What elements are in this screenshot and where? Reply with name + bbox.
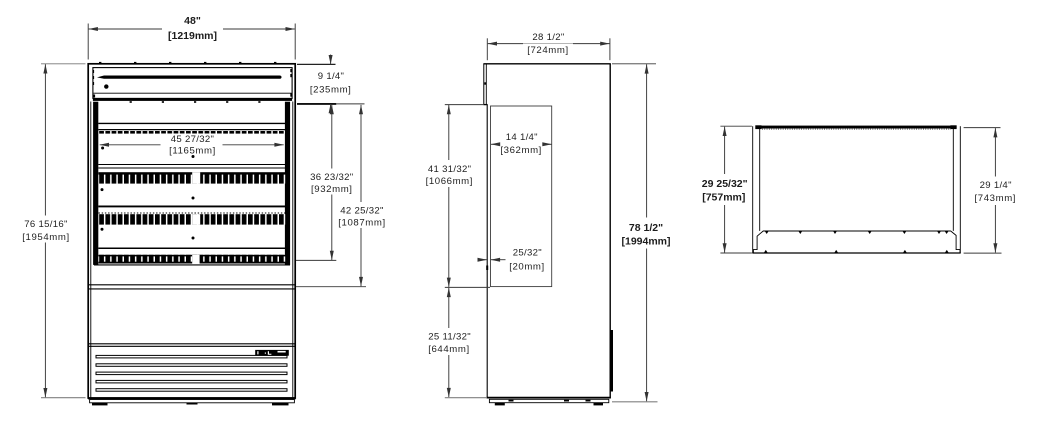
dim 42 ext bottom — [296, 286, 366, 288]
svg-text:14 1/4": 14 1/4" — [506, 132, 538, 143]
rear edge — [609, 64, 611, 398]
feet — [92, 403, 108, 406]
dim 29.79 ext bottom — [720, 252, 752, 254]
dim 25.34 text — [423, 328, 475, 355]
dim 29.25 text — [970, 177, 1021, 206]
side base plinth — [489, 399, 608, 402]
body front edge — [486, 105, 488, 398]
dim 42 text — [336, 202, 388, 229]
dim 76in ext bottom — [41, 397, 86, 399]
left wall post — [93, 102, 98, 265]
brand label — [255, 350, 289, 356]
canopy front dot — [484, 82, 486, 84]
canopy lamp dot — [104, 84, 108, 88]
canopy front outer line — [483, 64, 485, 105]
bumper lines — [89, 284, 296, 286]
dim 36 ext bottom — [296, 259, 336, 261]
dim 36 text — [307, 169, 357, 196]
canopy inner panel — [93, 68, 292, 99]
dim 0.79 leader — [491, 259, 506, 261]
base plinth — [90, 400, 295, 403]
dim 0.79 text — [509, 248, 545, 273]
dim 36 line — [331, 105, 333, 260]
shelf line above strip3 — [98, 247, 285, 249]
left inner wall — [759, 129, 761, 231]
top shelf line 1 — [98, 122, 285, 124]
svg-text:78 1/2": 78 1/2" — [629, 222, 663, 234]
dim 78.5 text — [619, 218, 674, 249]
svg-text:36 23/32": 36 23/32" — [310, 172, 353, 183]
svg-text:48": 48" — [184, 15, 201, 27]
dim 29.25 ext top — [964, 127, 1001, 129]
dim 9.25 ext bottom thick — [297, 103, 336, 105]
svg-text:[644mm]: [644mm] — [428, 344, 470, 355]
dim 48in line — [89, 28, 295, 30]
shelf strip 2 — [99, 214, 286, 224]
dim 29.79 ext top — [720, 125, 752, 127]
dim 42 line — [360, 105, 362, 286]
svg-text:[20mm]: [20mm] — [509, 262, 545, 273]
dim 9.25 ext top — [297, 63, 336, 65]
svg-text:29 1/4": 29 1/4" — [980, 180, 1012, 191]
svg-text:[362mm]: [362mm] — [500, 145, 542, 156]
dim 41 line — [448, 105, 450, 287]
dim 29.79 text — [700, 174, 750, 205]
right inner wall — [952, 129, 954, 231]
dim 29.25 ext bottom — [964, 252, 1002, 254]
dim 45 text — [161, 134, 223, 157]
dim 76in line — [44, 64, 46, 397]
canopy inner shelf line — [94, 92, 292, 94]
interior opening rect — [491, 106, 552, 287]
shelf dots row3 — [101, 228, 104, 231]
back panel right corner — [951, 231, 960, 253]
canopy bottom band — [93, 98, 292, 101]
svg-text:[1165mm]: [1165mm] — [169, 146, 216, 157]
bar corner block left — [755, 125, 761, 129]
top shelf line 2 — [98, 129, 285, 131]
svg-text:[743mm]: [743mm] — [975, 193, 1017, 204]
dim 78.5 line — [646, 64, 648, 401]
canopy step — [483, 104, 487, 106]
cabinet bottom thick line — [88, 397, 296, 399]
dim 9.25 text — [308, 69, 354, 96]
svg-text:42 25/32": 42 25/32" — [340, 205, 383, 216]
dim 78.5 ext top — [612, 63, 656, 65]
svg-text:25/32": 25/32" — [513, 248, 542, 259]
canopy underside ticks — [130, 101, 261, 103]
shelf dots row1 — [101, 147, 104, 150]
svg-text:[235mm]: [235mm] — [310, 84, 352, 95]
dim 14.25 text — [500, 132, 542, 156]
dim 48 text — [162, 15, 223, 42]
dim 9.25 outside arrows — [330, 55, 332, 65]
shelf line above strip1 — [98, 164, 285, 166]
side feet — [495, 403, 505, 406]
right outer wall — [959, 126, 961, 253]
dim 25.34 ext bottom — [445, 397, 486, 399]
svg-text:[1954mm]: [1954mm] — [22, 232, 69, 243]
shelf line above strip2 — [98, 205, 285, 207]
svg-text:[724mm]: [724mm] — [527, 45, 569, 56]
dim mid ext line — [445, 286, 490, 288]
left outer wall — [752, 126, 754, 253]
left wall inner line — [90, 102, 92, 398]
top edge screw ticks — [99, 62, 276, 63]
dim 48in extension lines — [87, 24, 89, 60]
svg-text:[1066mm]: [1066mm] — [426, 176, 473, 187]
canopy front inner line — [485, 64, 487, 105]
rear bumper strip — [611, 330, 614, 392]
dim 41 text — [423, 160, 475, 187]
svg-text:[757mm]: [757mm] — [702, 192, 745, 204]
svg-text:41 31/32": 41 31/32" — [428, 164, 471, 175]
weld ticks on bottom edge — [764, 250, 949, 253]
dim 28.5 ext lines — [486, 38, 488, 60]
dotted seam under bar — [762, 128, 951, 130]
dim 76 text — [21, 216, 71, 244]
svg-text:[1994mm]: [1994mm] — [621, 236, 670, 248]
dim 76in ext top — [41, 63, 86, 65]
top edge — [483, 63, 610, 65]
weld ticks on inner line — [765, 231, 948, 234]
front mark — [486, 266, 488, 271]
top ticket strip — [99, 131, 285, 134]
dim 29.25 line — [994, 128, 996, 253]
right wall inner line — [292, 102, 294, 398]
svg-text:9 1/4": 9 1/4" — [318, 71, 345, 82]
cabinet outline — [88, 64, 295, 398]
louver panel top lines — [89, 343, 296, 345]
svg-text:[1087mm]: [1087mm] — [338, 218, 385, 229]
svg-text:28 1/2": 28 1/2" — [532, 32, 564, 43]
canopy light tube — [97, 76, 282, 79]
svg-text:76 15/16": 76 15/16" — [24, 219, 67, 230]
right wall post — [285, 102, 290, 265]
shelf dots row2 — [101, 188, 104, 191]
dim 78.5 ext bottom — [612, 401, 658, 403]
svg-text:[1219mm]: [1219mm] — [168, 30, 217, 42]
dim 29.79 line — [724, 127, 726, 253]
dim 0.79 outside arrow — [478, 259, 487, 261]
svg-text:25 11/32": 25 11/32" — [428, 332, 471, 343]
svg-text:45 27/32": 45 27/32" — [171, 134, 214, 145]
interior bottom line — [94, 264, 290, 266]
dim 25.34 line — [448, 288, 450, 397]
dim 28.5 text — [523, 32, 573, 56]
canopy right edge marks — [290, 69, 292, 72]
shelf strip 1 — [99, 172, 286, 183]
back panel inner line — [763, 230, 951, 232]
dim 14.25 arrows — [491, 143, 500, 145]
louver slats — [96, 355, 287, 391]
dim 45 line — [100, 144, 284, 146]
bottom edge — [752, 252, 960, 254]
canopy front bar — [756, 126, 957, 129]
bar corner block right — [950, 125, 956, 129]
canopy left edge marks — [93, 70, 95, 73]
bottom ticket strip 3 — [99, 255, 286, 264]
dim 41 ext top — [445, 104, 483, 106]
bottom edge — [487, 397, 611, 399]
dim 28.5 line — [488, 43, 610, 45]
dotted hinge line — [99, 212, 286, 214]
svg-text:29 25/32": 29 25/32" — [702, 178, 748, 190]
back panel left corner — [753, 231, 763, 253]
svg-text:[932mm]: [932mm] — [311, 184, 353, 195]
